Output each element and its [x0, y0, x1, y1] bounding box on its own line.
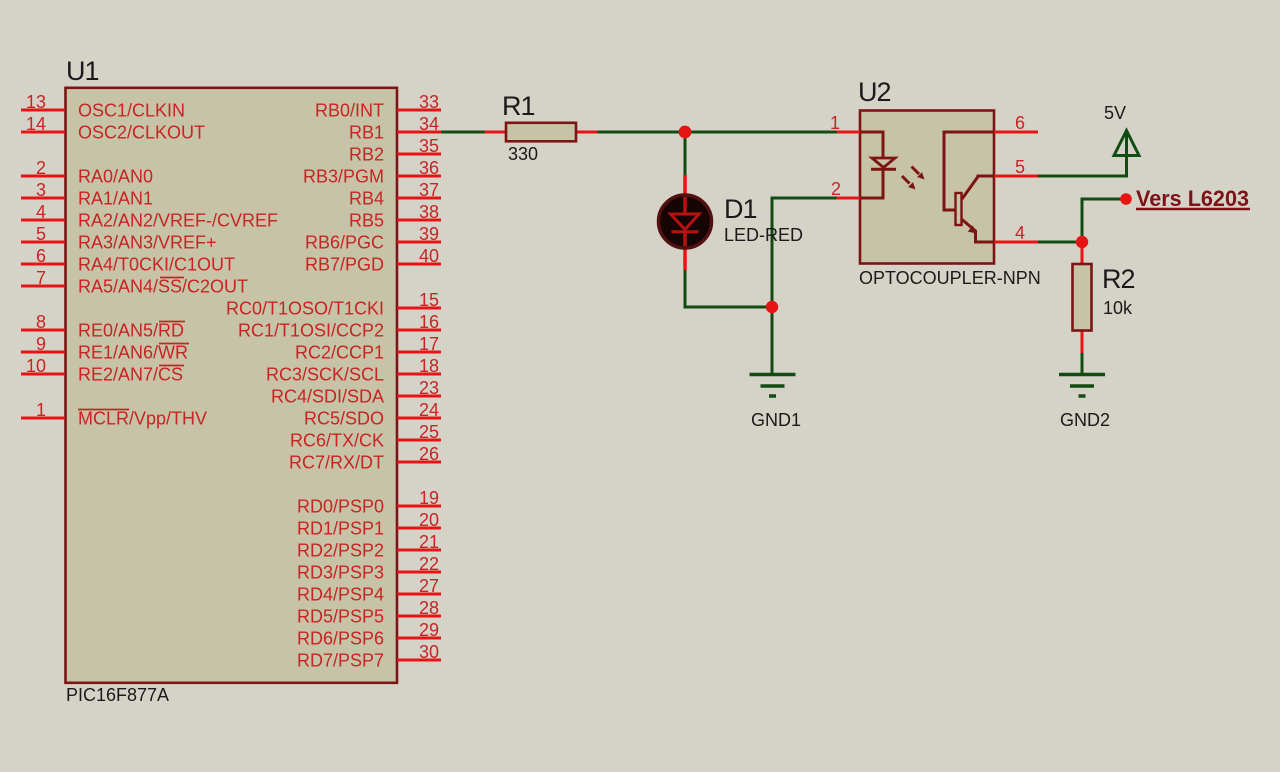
svg-text:18: 18: [419, 356, 439, 376]
svg-text:20: 20: [419, 510, 439, 530]
svg-text:24: 24: [419, 400, 439, 420]
svg-text:27: 27: [419, 576, 439, 596]
svg-text:RD0/PSP0: RD0/PSP0: [297, 497, 384, 517]
svg-text:5: 5: [1015, 157, 1025, 177]
svg-text:38: 38: [419, 202, 439, 222]
svg-text:RA0/AN0: RA0/AN0: [78, 167, 153, 187]
svg-text:RC5/SDO: RC5/SDO: [304, 409, 384, 429]
svg-text:36: 36: [419, 158, 439, 178]
svg-text:8: 8: [36, 312, 46, 332]
svg-text:RE0/AN5/RD: RE0/AN5/RD: [78, 321, 184, 341]
svg-text:RC1/T1OSI/CCP2: RC1/T1OSI/CCP2: [238, 321, 384, 341]
svg-text:6: 6: [36, 246, 46, 266]
svg-text:RA1/AN1: RA1/AN1: [78, 189, 153, 209]
svg-text:25: 25: [419, 422, 439, 442]
svg-text:RD7/PSP7: RD7/PSP7: [297, 651, 384, 671]
svg-text:RE2/AN7/CS: RE2/AN7/CS: [78, 365, 183, 385]
svg-text:16: 16: [419, 312, 439, 332]
svg-text:21: 21: [419, 532, 439, 552]
svg-text:17: 17: [419, 334, 439, 354]
svg-text:330: 330: [508, 144, 538, 164]
svg-text:9: 9: [36, 334, 46, 354]
svg-text:RB7/PGD: RB7/PGD: [305, 255, 384, 275]
svg-text:OSC1/CLKIN: OSC1/CLKIN: [78, 101, 185, 121]
svg-text:37: 37: [419, 180, 439, 200]
svg-text:R1: R1: [502, 91, 535, 121]
svg-text:RD3/PSP3: RD3/PSP3: [297, 563, 384, 583]
svg-text:Vers L6203: Vers L6203: [1136, 186, 1249, 211]
svg-text:RC7/RX/DT: RC7/RX/DT: [289, 453, 384, 473]
svg-text:RB5: RB5: [349, 211, 384, 231]
svg-text:OSC2/CLKOUT: OSC2/CLKOUT: [78, 123, 205, 143]
svg-text:28: 28: [419, 598, 439, 618]
svg-text:LED-RED: LED-RED: [724, 225, 803, 245]
svg-text:4: 4: [36, 202, 46, 222]
svg-text:RB1: RB1: [349, 123, 384, 143]
svg-text:RA2/AN2/VREF-/CVREF: RA2/AN2/VREF-/CVREF: [78, 211, 278, 231]
svg-text:U2: U2: [858, 77, 891, 107]
svg-text:10k: 10k: [1103, 298, 1133, 318]
svg-text:RA4/T0CKI/C1OUT: RA4/T0CKI/C1OUT: [78, 255, 235, 275]
svg-text:33: 33: [419, 92, 439, 112]
svg-text:D1: D1: [724, 194, 757, 224]
svg-text:RC4/SDI/SDA: RC4/SDI/SDA: [271, 387, 384, 407]
svg-text:30: 30: [419, 642, 439, 662]
svg-text:RE1/AN6/WR: RE1/AN6/WR: [78, 343, 188, 363]
svg-text:RB4: RB4: [349, 189, 384, 209]
svg-text:1: 1: [36, 400, 46, 420]
svg-text:RC2/CCP1: RC2/CCP1: [295, 343, 384, 363]
svg-text:15: 15: [419, 290, 439, 310]
svg-text:13: 13: [26, 92, 46, 112]
svg-text:RA3/AN3/VREF+: RA3/AN3/VREF+: [78, 233, 217, 253]
svg-text:5: 5: [36, 224, 46, 244]
svg-text:R2: R2: [1102, 264, 1135, 294]
svg-text:5V: 5V: [1104, 103, 1126, 123]
svg-text:RA5/AN4/SS/C2OUT: RA5/AN4/SS/C2OUT: [78, 277, 248, 297]
svg-text:26: 26: [419, 444, 439, 464]
svg-text:10: 10: [26, 356, 46, 376]
svg-text:34: 34: [419, 114, 439, 134]
svg-text:PIC16F877A: PIC16F877A: [66, 685, 169, 705]
svg-text:19: 19: [419, 488, 439, 508]
svg-text:2: 2: [831, 179, 841, 199]
svg-text:RB6/PGC: RB6/PGC: [305, 233, 384, 253]
svg-text:RD4/PSP4: RD4/PSP4: [297, 585, 384, 605]
svg-text:RC3/SCK/SCL: RC3/SCK/SCL: [266, 365, 384, 385]
svg-text:22: 22: [419, 554, 439, 574]
svg-text:RC6/TX/CK: RC6/TX/CK: [290, 431, 384, 451]
svg-text:OPTOCOUPLER-NPN: OPTOCOUPLER-NPN: [859, 268, 1041, 288]
svg-text:GND2: GND2: [1060, 410, 1110, 430]
svg-text:RB0/INT: RB0/INT: [315, 101, 384, 121]
svg-text:MCLR/Vpp/THV: MCLR/Vpp/THV: [78, 409, 207, 429]
svg-text:RD5/PSP5: RD5/PSP5: [297, 607, 384, 627]
svg-text:4: 4: [1015, 223, 1025, 243]
svg-text:RD6/PSP6: RD6/PSP6: [297, 629, 384, 649]
svg-text:RD2/PSP2: RD2/PSP2: [297, 541, 384, 561]
svg-text:RB2: RB2: [349, 145, 384, 165]
svg-text:23: 23: [419, 378, 439, 398]
svg-text:RD1/PSP1: RD1/PSP1: [297, 519, 384, 539]
svg-text:GND1: GND1: [751, 410, 801, 430]
svg-text:40: 40: [419, 246, 439, 266]
svg-text:39: 39: [419, 224, 439, 244]
svg-text:6: 6: [1015, 113, 1025, 133]
svg-text:7: 7: [36, 268, 46, 288]
svg-text:3: 3: [36, 180, 46, 200]
svg-text:1: 1: [830, 113, 840, 133]
svg-text:RB3/PGM: RB3/PGM: [303, 167, 384, 187]
svg-text:2: 2: [36, 158, 46, 178]
svg-text:29: 29: [419, 620, 439, 640]
svg-text:U1: U1: [66, 56, 99, 86]
svg-text:35: 35: [419, 136, 439, 156]
svg-text:14: 14: [26, 114, 46, 134]
svg-text:RC0/T1OSO/T1CKI: RC0/T1OSO/T1CKI: [226, 299, 384, 319]
